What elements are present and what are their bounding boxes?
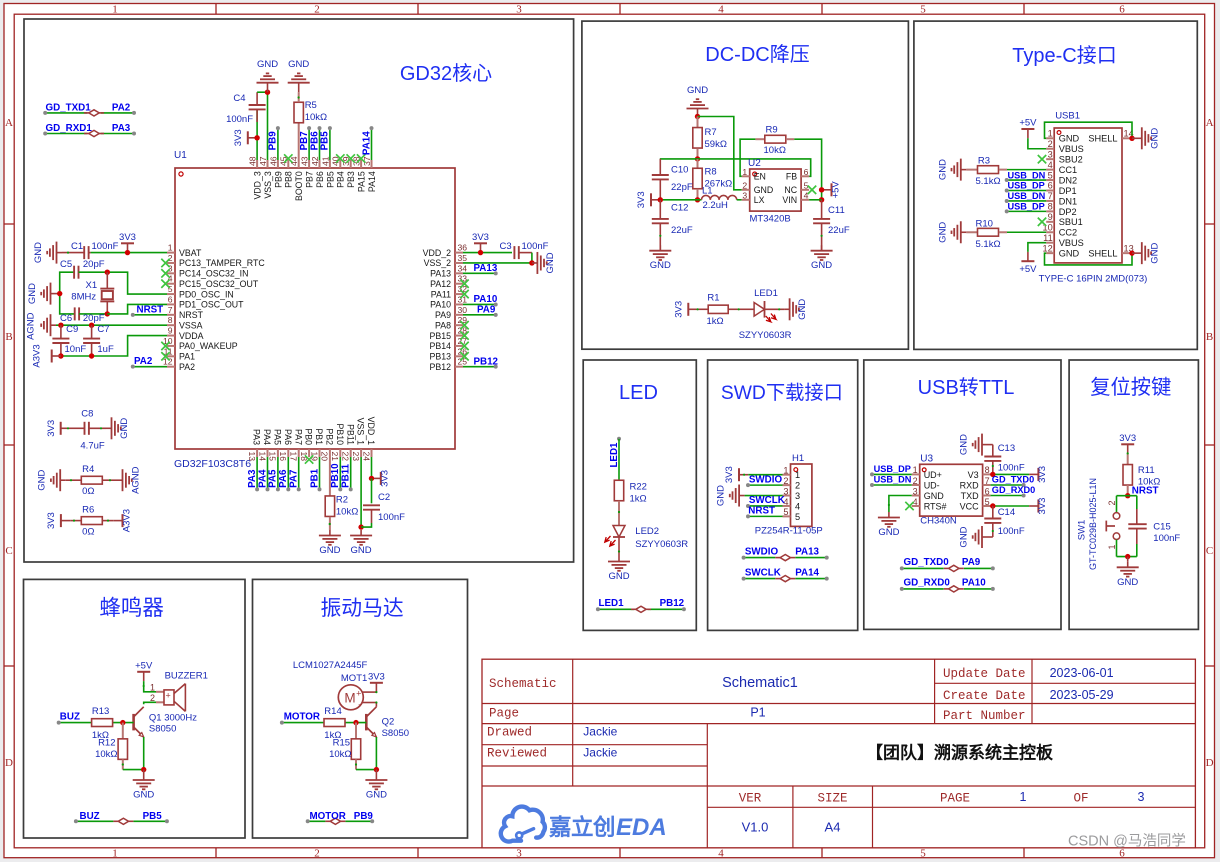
JLC EDA logo text <box>549 814 667 841</box>
net stub dot <box>131 365 135 369</box>
IC U2 MT3420B body <box>750 169 801 211</box>
JLC EDA logo cloud <box>501 807 545 842</box>
svg-text:AGND: AGND <box>26 312 37 340</box>
ground at R2 <box>319 530 341 556</box>
wire PA7 stub <box>298 457 300 489</box>
svg-text:VDD_1: VDD_1 <box>366 417 376 445</box>
net stub dot <box>991 566 995 570</box>
svg-text:PA9: PA9 <box>962 557 981 568</box>
net stub dot <box>349 487 353 491</box>
capacitor C6 <box>75 307 108 320</box>
svg-text:U2: U2 <box>748 158 761 169</box>
U1 pin 34 PA13 <box>430 263 467 278</box>
svg-text:NRST: NRST <box>748 506 775 517</box>
U2 pin 5 NC <box>784 180 809 195</box>
IC U3 CH340N body <box>920 464 983 516</box>
svg-text:PA6: PA6 <box>283 429 293 445</box>
junction <box>57 291 62 296</box>
U1 pin 12 PA2 <box>163 357 195 372</box>
U1 pin 31 PA10 <box>430 294 467 309</box>
svg-text:EN: EN <box>754 172 766 182</box>
resistor R6 <box>70 517 113 525</box>
svg-text:Create Date: Create Date <box>943 689 1026 703</box>
H1 pin 4 <box>783 497 801 512</box>
svg-text:Schematic1: Schematic1 <box>722 675 798 691</box>
svg-text:PC15_OSC32_OUT: PC15_OSC32_OUT <box>179 279 259 289</box>
capacitor C7 <box>83 325 100 356</box>
svg-text:PB15: PB15 <box>429 331 451 341</box>
H1 pin 1 <box>783 466 801 481</box>
diode LED1 <box>754 301 776 322</box>
svg-text:3V3: 3V3 <box>233 129 244 146</box>
link diamond LED1 <box>631 606 651 612</box>
USB1 pin 12 GND <box>1042 243 1079 258</box>
svg-text:1kΩ: 1kΩ <box>630 494 647 505</box>
wire VIN row <box>809 199 822 201</box>
svg-text:GND: GND <box>319 545 340 556</box>
resistor R22 <box>614 480 623 525</box>
svg-text:H1: H1 <box>792 453 804 464</box>
svg-text:Jackie: Jackie <box>583 746 617 760</box>
junction <box>1125 554 1130 559</box>
net link MOTOR - PB9 <box>308 820 373 822</box>
junction <box>105 311 110 316</box>
wire MOTOR to base <box>282 722 366 724</box>
svg-text:PAGE: PAGE <box>940 792 970 806</box>
transistor Q1 S8050 <box>134 707 144 737</box>
wire R15 to emitter rail <box>356 769 376 771</box>
svg-text:GND: GND <box>27 283 38 304</box>
svg-text:3V3: 3V3 <box>472 232 489 243</box>
svg-text:PA1: PA1 <box>179 352 195 362</box>
svg-text:Reviewed: Reviewed <box>487 747 547 761</box>
frame column ticks <box>216 4 1024 858</box>
capacitor C1 <box>62 246 91 259</box>
net stub dot <box>1022 483 1026 487</box>
svg-text:100nF: 100nF <box>378 512 405 523</box>
no-connect SBU1 <box>1038 218 1046 226</box>
wire buzzer pin2 to Q1 collector <box>144 702 156 704</box>
svg-text:C1: C1 <box>71 241 83 252</box>
svg-text:BOOT0: BOOT0 <box>294 171 304 201</box>
wire PA6 stub <box>287 457 289 489</box>
wire NRST <box>133 314 167 316</box>
capacitor C13 <box>984 445 1001 475</box>
H1 pin 3 <box>783 486 801 501</box>
svg-text:DC-DC降压: DC-DC降压 <box>705 43 809 66</box>
U2 pin 4 VIN <box>782 190 809 205</box>
svg-text:S8050: S8050 <box>382 728 409 739</box>
net link GD_RXD0 - PA10 <box>902 588 993 590</box>
junction <box>990 503 995 508</box>
wire VDD_1 to C2 <box>371 478 373 503</box>
svg-text:59kΩ: 59kΩ <box>705 139 727 150</box>
svg-text:DP1: DP1 <box>1059 186 1077 196</box>
svg-text:EDA: EDA <box>616 814 667 841</box>
svg-text:PA15: PA15 <box>357 171 367 192</box>
wire USB_DP pin6 <box>1007 190 1046 192</box>
svg-text:43: 43 <box>300 156 310 166</box>
svg-text:C9: C9 <box>66 324 78 335</box>
svg-text:36: 36 <box>458 243 468 253</box>
junction <box>478 250 483 255</box>
ground at LED1 <box>784 298 808 320</box>
svg-text:PB10: PB10 <box>330 463 341 488</box>
wire PB1 stub <box>319 457 321 489</box>
svg-text:C: C <box>1206 545 1213 557</box>
frame row labels <box>5 117 1214 769</box>
svg-text:6: 6 <box>168 294 173 304</box>
U1 pin 25 PB12 <box>429 357 467 372</box>
net stub dot <box>870 483 874 487</box>
svg-text:Part Number: Part Number <box>943 709 1026 723</box>
U1 pin 35 VSS_2 <box>424 253 468 268</box>
svg-text:2: 2 <box>783 476 788 486</box>
svg-text:2023-06-01: 2023-06-01 <box>1050 666 1114 680</box>
svg-text:100nF: 100nF <box>1153 533 1180 544</box>
svg-text:8: 8 <box>1048 202 1053 212</box>
svg-text:10kΩ: 10kΩ <box>95 749 117 760</box>
svg-text:8: 8 <box>985 465 990 475</box>
net stub dot <box>825 577 829 581</box>
svg-text:1uF: 1uF <box>97 344 114 355</box>
svg-text:42: 42 <box>310 156 320 166</box>
svg-text:GND: GND <box>37 470 48 491</box>
svg-text:R13: R13 <box>92 706 109 717</box>
U1 pin 29 PA8 <box>435 315 467 330</box>
capacitor C9 <box>52 325 69 356</box>
svg-text:VBUS: VBUS <box>1059 238 1084 248</box>
svg-text:NRST: NRST <box>179 310 204 320</box>
svg-text:FB: FB <box>786 172 797 182</box>
svg-text:MOT1: MOT1 <box>341 673 367 684</box>
svg-text:10nF: 10nF <box>65 344 87 355</box>
svg-text:-: - <box>358 700 361 710</box>
svg-text:0Ω: 0Ω <box>82 486 94 497</box>
wire 3V3 to pin1 <box>748 474 782 476</box>
svg-text:3V3: 3V3 <box>380 470 391 487</box>
svg-text:5: 5 <box>804 180 809 190</box>
svg-text:2: 2 <box>913 476 918 486</box>
svg-text:6: 6 <box>985 486 990 496</box>
svg-text:GND: GND <box>33 242 44 263</box>
ground at R10 <box>937 221 966 243</box>
resistor R5 on BOOT0 <box>294 92 303 160</box>
svg-text:2: 2 <box>168 253 173 263</box>
no-connect PC15 <box>161 280 169 288</box>
svg-text:2: 2 <box>150 693 155 703</box>
svg-text:7: 7 <box>985 476 990 486</box>
wire USB_DN to pin2 <box>872 484 912 486</box>
svg-text:1: 1 <box>112 848 118 860</box>
svg-text:22uF: 22uF <box>671 225 693 236</box>
svg-text:3: 3 <box>516 4 522 16</box>
svg-text:AGND: AGND <box>131 466 142 494</box>
wire NRST node <box>1117 495 1137 497</box>
svg-text:CSDN @马浩同学: CSDN @马浩同学 <box>1068 833 1186 850</box>
svg-text:L1: L1 <box>702 186 713 197</box>
ground at U3 pin3 <box>878 512 900 538</box>
svg-text:LX: LX <box>754 195 765 205</box>
ground at R5 <box>288 59 310 92</box>
svg-text:0Ω: 0Ω <box>82 527 94 538</box>
wire PB12 <box>463 366 496 368</box>
svg-text:GND: GND <box>959 526 970 547</box>
junction <box>695 156 700 161</box>
USB1 pin 4 CC1 <box>1046 160 1077 175</box>
power 3V3 at VBAT <box>119 232 136 253</box>
svg-text:PA7: PA7 <box>289 469 300 488</box>
svg-text:PB1: PB1 <box>309 468 320 488</box>
wire SWCLK to pin4 <box>748 505 783 507</box>
net stub dot <box>306 819 310 823</box>
svg-text:20pF: 20pF <box>83 259 105 270</box>
USB1 pin 2 VBUS <box>1046 139 1084 154</box>
svg-text:PB5: PB5 <box>325 171 335 188</box>
svg-text:5.1kΩ: 5.1kΩ <box>976 239 1001 250</box>
DC-DC section box <box>582 21 909 349</box>
wire R9 left to EN <box>740 139 755 176</box>
power +5V buzzer <box>135 660 153 681</box>
ground motor <box>365 775 387 801</box>
wire to SW1 <box>1116 496 1118 513</box>
junction <box>105 270 110 275</box>
svg-text:10kΩ: 10kΩ <box>764 145 786 156</box>
power 3V3 reset <box>1119 433 1136 454</box>
svg-text:12: 12 <box>1042 243 1052 253</box>
svg-text:9: 9 <box>1048 212 1053 222</box>
wire BUZ to base <box>59 722 134 724</box>
svg-text:PC13_TAMPER_RTC: PC13_TAMPER_RTC <box>179 258 265 268</box>
switch SW1 <box>1106 500 1119 549</box>
U3 pin 6 TXD <box>961 486 991 501</box>
svg-text:USB_DP: USB_DP <box>1008 181 1045 191</box>
power 3V3 at C8 <box>46 420 70 437</box>
svg-text:SHELL: SHELL <box>1088 249 1117 259</box>
junction <box>695 114 700 119</box>
power +5V DC-DC out <box>822 181 841 199</box>
svg-text:PA11: PA11 <box>431 289 451 299</box>
svg-text:4: 4 <box>804 190 809 200</box>
resistor R8 <box>693 159 702 200</box>
svg-text:34: 34 <box>458 263 468 273</box>
svg-text:C8: C8 <box>81 409 93 420</box>
svg-text:VBUS: VBUS <box>1059 144 1084 154</box>
H1 pin 2 <box>783 476 801 491</box>
svg-text:1kΩ: 1kΩ <box>707 316 724 327</box>
svg-text:A3V3: A3V3 <box>32 344 43 367</box>
wire C2 to GND rail <box>361 523 371 527</box>
U1 pin 1 VBAT <box>167 243 202 258</box>
svg-text:PZ254R-11-05P: PZ254R-11-05P <box>755 525 823 536</box>
net stub dot <box>43 132 47 136</box>
U1 pin 10 PA0_WAKEUP <box>163 336 238 351</box>
resistor R9 <box>755 135 794 143</box>
ground at C14 <box>959 526 992 548</box>
svg-text:VDDA: VDDA <box>179 331 204 341</box>
U1 pin 8 VSSA <box>167 315 203 330</box>
svg-text:6: 6 <box>804 167 809 177</box>
net stub dot <box>255 487 259 491</box>
wire V3 row <box>991 473 1030 475</box>
no-connect PB3 <box>347 154 355 162</box>
wire USB_DN pin5 <box>1007 179 1046 181</box>
wire +5V to buzzer pin1 <box>144 681 156 692</box>
wire motor to Q2 collector <box>375 703 377 707</box>
ground at H1 pin3 <box>716 485 745 507</box>
junction <box>1129 136 1134 141</box>
svg-text:PA0_WAKEUP: PA0_WAKEUP <box>179 341 238 351</box>
svg-text:1: 1 <box>1020 790 1027 804</box>
USB1 pin 7 DN1 <box>1046 191 1077 206</box>
svg-text:4: 4 <box>718 4 724 16</box>
svg-text:GD_RXD1: GD_RXD1 <box>46 123 93 134</box>
svg-text:U3: U3 <box>920 454 933 465</box>
power 3V3 at R1 <box>674 301 698 318</box>
svg-text:PB2: PB2 <box>325 428 335 445</box>
U1 pin 9 VDDA <box>167 326 204 341</box>
svg-text:PA4: PA4 <box>262 429 272 445</box>
capacitor C12 <box>652 200 669 251</box>
U3 pin 3 GND <box>912 486 945 501</box>
svg-text:NC: NC <box>784 185 797 195</box>
net stub dot <box>307 126 311 130</box>
svg-text:GD_TXD0: GD_TXD0 <box>904 557 950 568</box>
no-connect PA12 <box>460 280 468 288</box>
svg-text:GND: GND <box>545 252 556 273</box>
no-connect PB0 <box>305 455 313 463</box>
svg-text:C2: C2 <box>378 492 390 503</box>
resistor R15 <box>351 723 360 770</box>
wire PD1_OSC_OUT <box>107 304 167 313</box>
svg-text:USB转TTL: USB转TTL <box>918 376 1015 399</box>
pin end markers <box>67 96 1129 765</box>
svg-text:USB1: USB1 <box>1055 110 1080 121</box>
svg-text:GD_TXD0: GD_TXD0 <box>992 475 1034 485</box>
capacitor C14 <box>984 506 1001 537</box>
net stub dot <box>74 819 78 823</box>
U3 pin 8 V3 <box>968 465 991 480</box>
svg-text:PB0: PB0 <box>304 428 314 445</box>
wire R10 to CC2 <box>1007 231 1046 233</box>
svg-text:18: 18 <box>299 452 309 462</box>
U1 pin 22 PB11 <box>341 424 356 461</box>
junction <box>695 197 700 202</box>
svg-text:PA13: PA13 <box>474 263 498 274</box>
net stub dot <box>900 587 904 591</box>
U3 pin 2 UD- <box>912 476 940 491</box>
wire PA13 <box>463 272 496 274</box>
net stub dot <box>746 504 750 508</box>
svg-text:PB9: PB9 <box>354 811 374 822</box>
net stub dot <box>746 483 750 487</box>
svg-text:LED1: LED1 <box>609 442 620 468</box>
connector H1 body <box>791 464 812 526</box>
svg-text:PA10: PA10 <box>474 294 498 305</box>
junction <box>990 472 995 477</box>
svg-text:C12: C12 <box>671 202 688 213</box>
wire Q1 emitter down <box>143 737 145 770</box>
svg-text:LED1: LED1 <box>754 288 778 299</box>
svg-text:GND: GND <box>878 527 899 538</box>
wire USB_DP pin8 <box>1007 210 1046 212</box>
svg-text:D: D <box>1206 757 1214 769</box>
svg-text:D: D <box>5 757 13 769</box>
svg-text:USB_DP: USB_DP <box>874 464 911 474</box>
ground buzzer <box>133 775 155 801</box>
svg-text:GND: GND <box>351 545 372 556</box>
svg-text:Q1 3000Hz: Q1 3000Hz <box>149 713 197 724</box>
svg-text:MT3420B: MT3420B <box>750 214 791 225</box>
svg-text:22pF: 22pF <box>671 182 693 193</box>
svg-text:100nF: 100nF <box>998 463 1025 474</box>
svg-text:VCC: VCC <box>960 501 980 511</box>
svg-text:R5: R5 <box>305 100 317 111</box>
svg-text:R10: R10 <box>976 219 993 230</box>
wire VDD_1 down <box>371 457 373 478</box>
svg-text:R4: R4 <box>82 464 94 475</box>
svg-text:SWCLK: SWCLK <box>749 495 785 506</box>
net stub dot <box>991 587 995 591</box>
net stub dot <box>1022 494 1026 498</box>
net stub dot <box>280 721 284 725</box>
svg-text:GND: GND <box>119 418 130 439</box>
U2 pin 2 GND <box>742 180 774 195</box>
svg-text:CC1: CC1 <box>1059 165 1077 175</box>
svg-text:GND: GND <box>257 59 278 70</box>
no-connect PA8 <box>460 321 468 329</box>
svg-text:3: 3 <box>516 848 522 860</box>
wire SW1 to rail <box>1116 540 1118 557</box>
svg-text:P1: P1 <box>750 706 765 720</box>
svg-text:6: 6 <box>1048 181 1053 191</box>
LED section box <box>583 360 696 630</box>
svg-text:2: 2 <box>314 4 320 16</box>
svg-text:4: 4 <box>1048 160 1053 170</box>
U1 pin 6 PD1_OSC_OUT <box>167 294 244 309</box>
net stub dot <box>370 819 374 823</box>
U1 pin 18 PB0 <box>299 428 314 461</box>
svg-text:PA5: PA5 <box>268 469 279 488</box>
svg-text:3V3: 3V3 <box>1037 498 1048 515</box>
svg-text:19: 19 <box>309 452 319 462</box>
svg-text:SW1: SW1 <box>1077 520 1088 541</box>
svg-text:PB5: PB5 <box>143 811 163 822</box>
wire 3V3 to LX row <box>660 199 701 201</box>
net stub dot <box>43 111 47 115</box>
wire R12 to emitter rail <box>123 769 144 771</box>
wire pin1 GND to shell <box>1045 122 1133 138</box>
svg-text:VSS_3: VSS_3 <box>263 171 273 198</box>
power 3V3 at VDD_1 <box>372 470 391 487</box>
svg-text:GD_RXD0: GD_RXD0 <box>904 578 951 589</box>
power 3V3 DC-DC input <box>636 191 660 208</box>
svg-text:GD_RXD0: GD_RXD0 <box>992 485 1035 495</box>
wire PB9 stub <box>277 128 279 160</box>
svg-text:R11: R11 <box>1138 465 1155 476</box>
wire R9 right to +5V rail <box>794 139 821 200</box>
SWD section box <box>708 360 858 630</box>
wire PA4 stub <box>267 457 269 489</box>
net stub dot <box>494 302 498 306</box>
svg-text:PB5: PB5 <box>320 131 331 151</box>
svg-text:PA4: PA4 <box>257 469 268 488</box>
net stub dot <box>825 556 829 560</box>
net stub dot <box>900 566 904 570</box>
no-connect PA1 <box>161 352 169 360</box>
U1 pin 46 PB9 <box>268 156 283 188</box>
wire VSS_1 down <box>360 457 362 527</box>
